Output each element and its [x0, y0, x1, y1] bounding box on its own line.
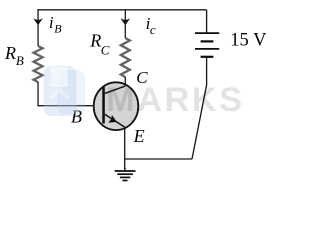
ground bar 4	[123, 180, 128, 182]
resistor R_C zigzag	[121, 38, 130, 77]
transistor Q1 emitter arrowhead	[108, 115, 117, 123]
ground stem	[124, 168, 126, 171]
wire R_C branch lower stub to collector	[124, 77, 126, 86]
battery V1 plate long 2	[195, 48, 219, 50]
svg-text:R: R	[89, 31, 101, 51]
transistor Q1 base bar	[102, 87, 105, 124]
svg-text:E: E	[133, 126, 145, 146]
wire base horizontal	[37, 105, 102, 107]
resistor R_B zigzag	[34, 46, 43, 82]
watermark logo white bookmark	[51, 67, 68, 87]
svg-text:i: i	[49, 13, 54, 32]
transistor Q1 collector lead diagonal	[105, 86, 126, 94]
wire left vertical (base branch lower stub)	[37, 82, 39, 106]
svg-text:B: B	[16, 53, 24, 68]
svg-text:B: B	[54, 22, 62, 36]
wire top horizontal VCC rail	[37, 9, 206, 11]
watermark logo square back	[57, 70, 85, 114]
transistor Q1 body circle	[94, 82, 139, 130]
current arrow i_B head	[33, 18, 43, 25]
wire battery top stub	[206, 10, 208, 33]
transistor Q1 emitter lead diagonal	[105, 114, 125, 127]
wire emitter vertical down	[124, 127, 126, 171]
svg-text:R: R	[4, 43, 16, 63]
ground bar 3	[120, 176, 130, 178]
svg-text:15 V: 15 V	[230, 30, 267, 50]
current arrow i_C head	[120, 18, 130, 25]
svg-text:C: C	[101, 43, 110, 58]
watermark logo white chevron	[50, 89, 69, 98]
svg-text:MARKS: MARKS	[106, 81, 245, 119]
wire R_C branch upper stub	[124, 10, 126, 38]
battery V1 plate long 1	[195, 32, 219, 34]
wire left vertical (base branch upper stub)	[37, 10, 39, 46]
watermark logo square front	[44, 66, 77, 116]
ground bar 1	[115, 170, 136, 172]
battery V1 plate short 2	[201, 56, 214, 58]
wire diagonal return from battery	[192, 58, 207, 160]
svg-text:c: c	[150, 22, 156, 37]
ground bar 2	[117, 173, 133, 175]
battery V1 plate short 1	[201, 40, 214, 42]
wire emitter tee to right	[125, 158, 192, 160]
